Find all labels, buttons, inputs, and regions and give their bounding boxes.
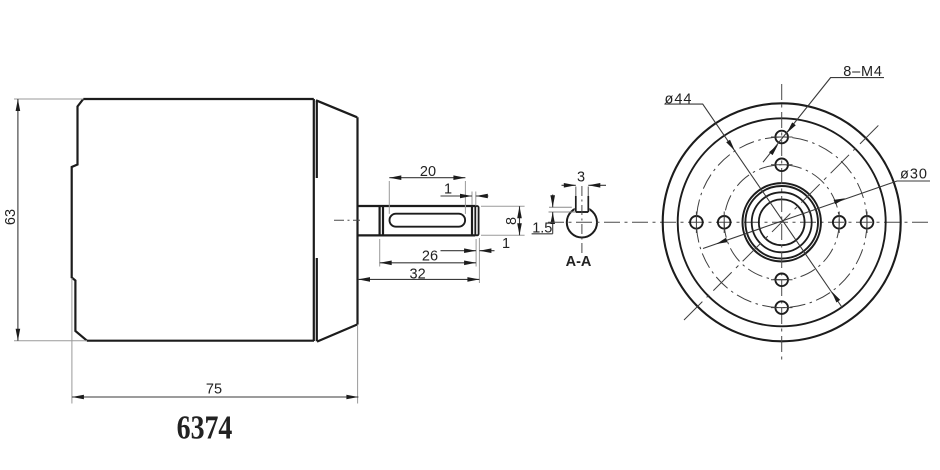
svg-text:63: 63: [3, 209, 19, 225]
ext 20: [389, 181, 465, 214]
dim 32 line: [358, 278, 479, 280]
shaft step line 1: [379, 206, 381, 235]
bell rim second line: [316, 101, 318, 342]
1.5 ref lines: [549, 207, 576, 212]
arrow 63 up: [16, 99, 21, 111]
arrow 3 left: [564, 183, 576, 188]
arrow 26 left: [380, 261, 392, 266]
dim 26 line: [380, 262, 476, 264]
shaft groove line: [471, 206, 473, 235]
dim 63 line: [17, 99, 19, 341]
ext 75 right: [357, 325, 359, 404]
hole top inner: [775, 159, 788, 172]
arrow 63 down: [16, 329, 21, 341]
ext 75 left: [71, 278, 73, 404]
hole tick marks: [696, 137, 867, 308]
dimension texts left view: [3, 164, 520, 398]
svg-text:6374: 6374: [177, 408, 233, 446]
hole left outer: [690, 216, 703, 229]
hole right inner: [833, 216, 846, 229]
ext 63 top: [14, 98, 83, 100]
leader 8-M4: [763, 78, 884, 163]
svg-text:A-A: A-A: [566, 254, 592, 270]
svg-text:8–M4: 8–M4: [843, 64, 882, 80]
arrowheads left view: [16, 99, 522, 399]
arrow 1.5 up: [550, 212, 555, 224]
keyway ext lines up: [576, 187, 589, 197]
bell bottom slant: [317, 325, 357, 342]
arrow 20 left: [389, 175, 401, 180]
bolt circle 30 dash-dot: [724, 165, 839, 280]
leader lines: [664, 78, 930, 308]
ext 32 right: [478, 238, 480, 283]
keyway slot (side view): [390, 214, 466, 227]
dim 3 lines: [562, 184, 607, 186]
arrow 20 right: [453, 175, 465, 180]
arrow top1 left: [460, 194, 472, 199]
arrow 1.5 down: [550, 195, 555, 207]
dimension lines: [18, 99, 520, 397]
outer circle: [663, 103, 901, 341]
arrows o30: [716, 238, 727, 244]
arrow 8 up: [517, 206, 522, 218]
shaft top edge: [358, 205, 476, 207]
arrow 75 left: [72, 395, 84, 400]
arrow 8 down: [517, 223, 522, 235]
hole bottom outer: [775, 301, 788, 314]
arrows o44: [726, 140, 735, 151]
keyway notch mask: [575, 188, 590, 212]
motor body right edge: [313, 99, 315, 341]
arrow 75 right: [346, 395, 358, 400]
svg-text:1.5: 1.5: [532, 221, 552, 237]
keyway notch bottom: [576, 211, 589, 213]
arrow 26 right: [464, 261, 476, 266]
arrow top1 right: [476, 194, 488, 199]
svg-text:1: 1: [502, 236, 510, 252]
bolt circle 44 dash-dot: [696, 137, 867, 308]
45 degree diagonal centerline: [684, 122, 882, 320]
hub outer circle: [743, 183, 821, 261]
second circle: [678, 118, 886, 326]
hub middle circle: [752, 192, 812, 252]
leader o44: [664, 104, 842, 308]
horizontal centerline to front view: [548, 221, 929, 223]
keyway notch sides: [576, 196, 589, 212]
mount face: [356, 117, 358, 324]
leader o30: [703, 181, 930, 249]
hole bottom inner: [775, 274, 788, 287]
arrow 3 right: [588, 183, 600, 188]
shaft step line 2: [382, 206, 384, 235]
hub chamfer circle: [745, 186, 818, 259]
svg-text:26: 26: [422, 249, 438, 265]
svg-text:8: 8: [504, 217, 520, 225]
shaft end capsule: [475, 206, 478, 235]
section circle: [567, 207, 597, 237]
arrow bot1 left: [464, 248, 476, 253]
motor body bottom edge: [87, 340, 314, 342]
svg-text:32: 32: [410, 267, 426, 283]
svg-text:ø30: ø30: [900, 167, 928, 183]
arrow bot1 right: [479, 248, 491, 253]
dim 20 line: [389, 177, 465, 179]
svg-text:1: 1: [444, 182, 452, 198]
svg-text:ø44: ø44: [665, 91, 693, 107]
extension lines (thin): [14, 99, 525, 404]
bolt holes: [690, 131, 873, 314]
svg-text:20: 20: [420, 164, 436, 180]
ext 8: [481, 206, 525, 235]
hole top outer: [775, 131, 788, 144]
motor body top edge: [83, 98, 313, 100]
hole right outer: [861, 216, 874, 229]
svg-text:75: 75: [206, 382, 222, 398]
ext 26: [380, 239, 476, 267]
hub inner circle: [759, 199, 805, 245]
ext 63 bottom: [14, 340, 87, 342]
bell top slant: [316, 100, 357, 117]
arrow 32 left: [358, 277, 370, 282]
svg-text:3: 3: [577, 170, 585, 186]
dim 8 line: [519, 206, 521, 235]
shaft bottom edge: [358, 234, 476, 236]
centerline shaft axis: [334, 219, 360, 221]
motor body left profile: [72, 99, 87, 341]
arrow 32 right: [467, 277, 479, 282]
arrows 8-M4: [787, 122, 796, 133]
1.5 dim verticals: [532, 195, 553, 234]
section vertical centerline: [581, 186, 583, 256]
dim top 1 line: [441, 195, 489, 197]
vertical centerline front: [781, 84, 783, 360]
dim bottom 1 line: [441, 250, 495, 252]
ext top 1: [472, 192, 476, 206]
dim 75 line: [72, 396, 359, 398]
hole left inner: [718, 216, 731, 229]
